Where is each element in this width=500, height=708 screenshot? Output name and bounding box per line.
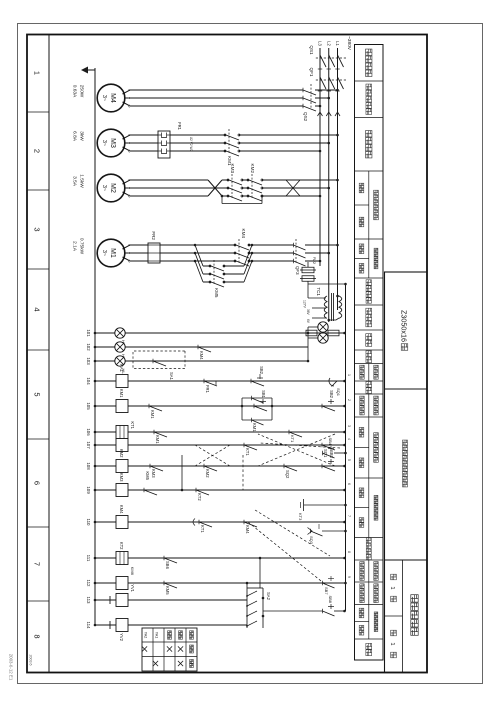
svg-text:3: 3 (347, 425, 351, 427)
svg-text:L3: L3 (318, 41, 323, 46)
svg-text:4: 4 (347, 438, 351, 440)
svg-text:U: U (127, 134, 131, 136)
svg-text:U: U (127, 89, 131, 91)
svg-text:KM1: KM1 (252, 423, 257, 432)
svg-text:108: 108 (86, 462, 91, 470)
svg-text:SB4: SB4 (328, 437, 333, 445)
svg-text:250W: 250W (79, 85, 85, 98)
svg-text:W: W (127, 150, 131, 153)
svg-text:SA2: SA2 (266, 592, 271, 601)
svg-text:KT3: KT3 (298, 513, 303, 521)
svg-text:FR1: FR1 (205, 385, 210, 394)
svg-text:9: 9 (347, 576, 351, 578)
svg-text:KT1: KT1 (290, 435, 295, 443)
svg-text:1: 1 (33, 71, 42, 75)
svg-text:5: 5 (33, 392, 42, 396)
svg-text:KM4: KM4 (241, 229, 246, 239)
svg-text:1: 1 (347, 374, 351, 376)
svg-text:QS1: QS1 (309, 45, 314, 55)
svg-text:U: U (127, 244, 131, 246)
svg-text:SB7: SB7 (324, 587, 329, 595)
svg-text:104: 104 (86, 377, 91, 385)
svg-text:3.5A: 3.5A (72, 176, 78, 187)
svg-text:V: V (127, 252, 131, 254)
svg-text:KT2: KT2 (197, 493, 202, 501)
svg-text:FR1: FR1 (177, 122, 182, 131)
svg-text:110: 110 (86, 519, 91, 527)
svg-text:V: V (127, 97, 131, 99)
svg-text:Z3050x16: Z3050x16 (400, 310, 409, 342)
svg-text:107: 107 (86, 441, 91, 449)
svg-text:~380V: ~380V (346, 36, 352, 51)
svg-text:2003.6: 2003.6 (29, 655, 33, 666)
svg-text:KA1: KA1 (119, 364, 124, 373)
svg-text:112: 112 (86, 580, 91, 588)
svg-text:KM5: KM5 (145, 471, 150, 480)
svg-text:SB8: SB8 (328, 595, 333, 603)
svg-text:KM5: KM5 (165, 586, 170, 595)
svg-text:M4: M4 (109, 93, 116, 103)
svg-text:L2: L2 (327, 41, 332, 46)
svg-text:6.8A: 6.8A (72, 131, 78, 142)
svg-text:SQ3: SQ3 (309, 536, 314, 545)
svg-text:W: W (127, 195, 131, 198)
svg-text:105: 105 (86, 402, 91, 410)
svg-text:U2 V2 W2: U2 V2 W2 (189, 137, 193, 152)
svg-text:2: 2 (33, 149, 42, 153)
svg-text:6: 6 (33, 481, 42, 485)
svg-text:QF3: QF3 (295, 266, 300, 275)
svg-text:8: 8 (347, 551, 351, 553)
svg-text:KT1: KT1 (245, 448, 250, 456)
svg-text:1: 1 (389, 586, 395, 589)
svg-text:SB2: SB2 (259, 366, 264, 375)
svg-text:2003-6-12 E1: 2003-6-12 E1 (9, 654, 14, 681)
svg-text:U: U (127, 179, 131, 181)
svg-text:103: 103 (86, 357, 91, 365)
svg-text:1: 1 (389, 642, 395, 645)
svg-text:102: 102 (86, 343, 91, 351)
svg-text:3~: 3~ (101, 185, 107, 191)
svg-text:0.63A: 0.63A (72, 85, 78, 98)
svg-text:KM6: KM6 (130, 567, 135, 576)
svg-text:W: W (127, 260, 131, 263)
svg-text:6: 6 (347, 483, 351, 485)
svg-text:YA2: YA2 (144, 632, 148, 639)
svg-text:KM1: KM1 (155, 435, 160, 444)
svg-text:109: 109 (86, 486, 91, 494)
svg-text:YV2: YV2 (119, 633, 124, 642)
svg-text:3~: 3~ (101, 95, 107, 101)
svg-text:1.5kW: 1.5kW (79, 174, 85, 188)
svg-text:M3: M3 (109, 138, 116, 148)
svg-text:7: 7 (347, 515, 351, 517)
svg-text:2: 2 (347, 399, 351, 401)
svg-text:KT1: KT1 (200, 525, 205, 533)
svg-text:2.1A: 2.1A (72, 241, 78, 252)
svg-text:KM4: KM4 (119, 505, 124, 514)
svg-text:KM5: KM5 (214, 288, 219, 298)
svg-text:KM2: KM2 (119, 449, 124, 458)
svg-text:101: 101 (86, 329, 91, 337)
svg-text:SB6: SB6 (165, 561, 170, 570)
svg-text:V: V (127, 187, 131, 189)
svg-text:SB2: SB2 (329, 390, 334, 399)
svg-text:KM2: KM2 (205, 469, 210, 478)
svg-text:KM3: KM3 (230, 164, 235, 174)
svg-text:7: 7 (33, 562, 42, 566)
svg-text:SA1: SA1 (169, 372, 174, 381)
svg-text:SB1: SB1 (261, 390, 266, 399)
svg-text:KM3: KM3 (151, 469, 156, 478)
svg-text:KM3: KM3 (119, 473, 124, 482)
svg-text:0.75kW: 0.75kW (79, 238, 85, 255)
svg-text:V: V (127, 142, 131, 144)
svg-text:SQ1: SQ1 (336, 388, 341, 397)
svg-text:3: 3 (33, 227, 42, 231)
svg-text:3~: 3~ (101, 140, 107, 146)
svg-text:3kW: 3kW (79, 131, 85, 141)
svg-text:W: W (127, 105, 131, 108)
svg-text:QS2: QS2 (303, 112, 308, 122)
svg-text:36V: 36V (306, 309, 310, 316)
svg-text:KM4: KM4 (199, 351, 204, 360)
svg-text:KM4: KM4 (245, 525, 250, 534)
svg-text:KM1: KM1 (150, 410, 155, 419)
svg-text:114: 114 (86, 622, 91, 630)
svg-text:3~: 3~ (101, 250, 107, 256)
svg-text:TC1: TC1 (316, 287, 321, 296)
svg-text:M2: M2 (109, 183, 116, 193)
svg-text:M1: M1 (109, 248, 116, 258)
svg-text:106: 106 (86, 428, 91, 436)
svg-text:FU2: FU2 (312, 257, 316, 264)
svg-text:SQ2: SQ2 (285, 470, 290, 479)
svg-text:QF1: QF1 (309, 68, 314, 77)
svg-text:111: 111 (86, 555, 91, 562)
svg-text:4: 4 (33, 307, 42, 311)
svg-text:113: 113 (86, 597, 91, 605)
svg-text:KT1: KT1 (130, 421, 135, 429)
svg-text:KT2: KT2 (119, 542, 124, 550)
svg-text:5: 5 (347, 459, 351, 461)
svg-text:FR2: FR2 (151, 231, 156, 240)
svg-text:8: 8 (33, 634, 42, 638)
svg-text:KM1: KM1 (119, 389, 124, 398)
svg-text:YV1: YV1 (130, 584, 135, 593)
svg-text:KM2: KM2 (250, 164, 255, 174)
svg-text:L1: L1 (335, 41, 340, 46)
svg-text:YA1: YA1 (155, 632, 159, 639)
svg-text:127V: 127V (303, 300, 307, 309)
